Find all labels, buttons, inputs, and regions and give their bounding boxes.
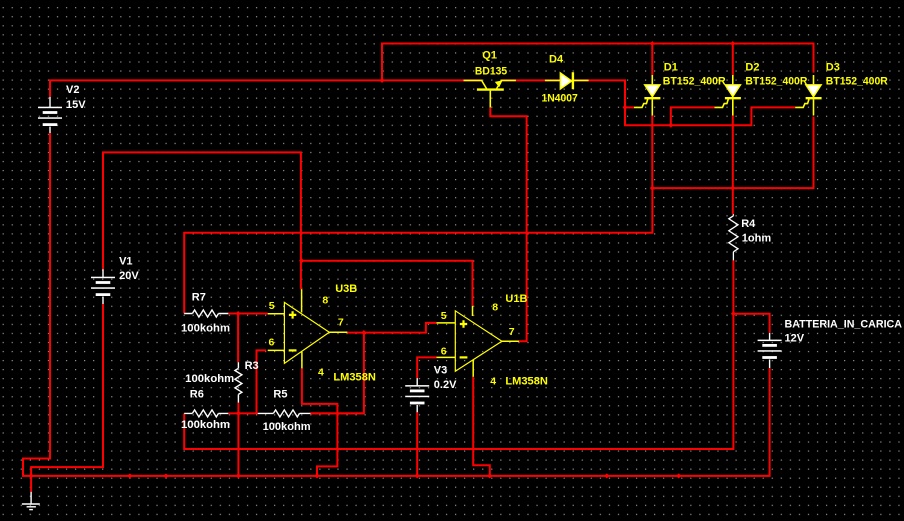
svg-text:V3: V3: [434, 364, 447, 376]
svg-text:100kohm: 100kohm: [263, 421, 311, 433]
svg-text:V1: V1: [119, 255, 132, 267]
svg-text:D1: D1: [664, 61, 678, 73]
svg-text:U1B: U1B: [505, 293, 527, 305]
svg-text:12V: 12V: [785, 333, 805, 345]
svg-text:8: 8: [322, 295, 328, 307]
svg-text:100kohm: 100kohm: [181, 322, 230, 334]
svg-text:4: 4: [318, 366, 324, 378]
svg-text:BT152_400R: BT152_400R: [745, 75, 807, 87]
svg-text:LM358N: LM358N: [505, 376, 548, 388]
svg-text:1ohm: 1ohm: [742, 233, 772, 245]
svg-text:100kohm: 100kohm: [181, 419, 230, 431]
svg-text:Q1: Q1: [482, 50, 497, 62]
svg-text:6: 6: [269, 336, 275, 348]
svg-text:BT152_400R: BT152_400R: [826, 75, 888, 87]
svg-text:7: 7: [509, 326, 515, 338]
svg-text:7: 7: [338, 317, 344, 329]
svg-text:LM358N: LM358N: [333, 372, 376, 384]
svg-text:D2: D2: [745, 61, 759, 73]
svg-text:BATTERIA_IN_CARICA: BATTERIA_IN_CARICA: [785, 319, 903, 331]
svg-text:100kohm: 100kohm: [185, 373, 234, 385]
svg-text:4: 4: [490, 376, 496, 388]
svg-text:R5: R5: [273, 389, 287, 401]
svg-text:BD135: BD135: [475, 66, 507, 78]
svg-text:R3: R3: [245, 360, 259, 372]
svg-text:D4: D4: [549, 54, 564, 66]
svg-text:6: 6: [441, 346, 447, 358]
svg-text:R7: R7: [192, 292, 206, 304]
svg-text:15V: 15V: [66, 99, 86, 111]
svg-text:R6: R6: [190, 389, 204, 401]
svg-text:20V: 20V: [119, 270, 139, 282]
svg-text:D3: D3: [826, 61, 840, 73]
svg-text:5: 5: [441, 310, 447, 322]
svg-text:5: 5: [269, 300, 275, 312]
svg-text:U3B: U3B: [335, 283, 357, 295]
svg-text:0.2V: 0.2V: [434, 379, 457, 391]
svg-text:8: 8: [492, 302, 498, 314]
svg-text:V2: V2: [66, 84, 79, 96]
svg-text:1N4007: 1N4007: [542, 93, 578, 105]
svg-text:BT152_400R: BT152_400R: [663, 75, 726, 87]
svg-text:R4: R4: [741, 218, 756, 230]
